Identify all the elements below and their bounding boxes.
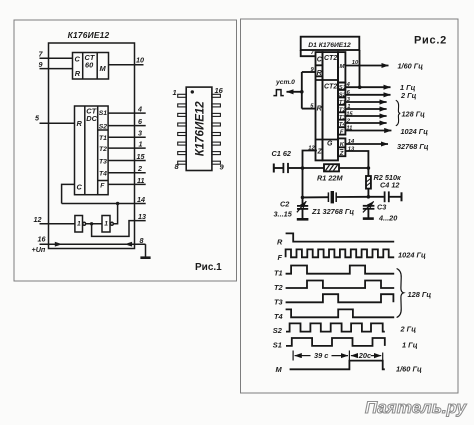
- node C1-R1 junction: [301, 166, 305, 170]
- svg-text:F: F: [278, 253, 283, 262]
- svg-text:R1 22М: R1 22М: [317, 174, 343, 183]
- pin 1 wire T2: [108, 147, 146, 149]
- ground of C3: [363, 217, 374, 220]
- svg-text:32768 Гц: 32768 Гц: [397, 142, 429, 151]
- svg-text:7: 7: [39, 50, 44, 59]
- waveform F 1024Hz: [286, 249, 395, 257]
- svg-text:9: 9: [220, 163, 225, 172]
- svg-text:6: 6: [138, 117, 143, 126]
- arrowhead pin 16: [55, 242, 63, 247]
- pin 10 wire: [109, 64, 144, 66]
- waveform T4: [286, 309, 395, 317]
- output T4: [345, 122, 386, 124]
- pin 1 index dot: [191, 90, 194, 93]
- outputs cell K Z: [338, 138, 345, 156]
- svg-text:1: 1: [77, 221, 81, 228]
- svg-text:G: G: [327, 141, 333, 148]
- svg-text:13: 13: [348, 147, 355, 153]
- svg-text:11: 11: [137, 176, 144, 185]
- waveform R: [286, 233, 395, 241]
- wire pin 12: [303, 151, 317, 198]
- svg-text:39 c: 39 c: [314, 351, 328, 360]
- svg-text:R: R: [77, 119, 83, 128]
- svg-text:10: 10: [352, 60, 359, 66]
- svg-text:T1: T1: [339, 100, 346, 106]
- svg-text:S2: S2: [339, 93, 347, 99]
- node crystal left junction: [301, 196, 305, 200]
- pin 16 and pin 8 supply wire: [40, 243, 146, 245]
- svg-text:S1: S1: [339, 85, 346, 91]
- resistor R1: [303, 167, 325, 169]
- pin 7 wire: [40, 57, 73, 59]
- svg-text:10: 10: [136, 56, 144, 65]
- svg-text:K: K: [340, 142, 345, 148]
- wire feedback S1 to box: [359, 50, 361, 87]
- svg-text:уст.0: уст.0: [275, 79, 295, 86]
- svg-text:1: 1: [173, 88, 177, 97]
- svg-text:Рис.2: Рис.2: [414, 35, 447, 47]
- counter CT60 block U1a: [73, 53, 109, 80]
- pin 14 wire: [62, 203, 146, 205]
- waveform T3: [286, 294, 394, 302]
- svg-text:1/60 Гц: 1/60 Гц: [398, 62, 424, 71]
- svg-text:Z: Z: [317, 149, 323, 156]
- svg-text:C3: C3: [377, 203, 386, 212]
- wire between inverters: [86, 223, 102, 225]
- svg-text:S2: S2: [99, 124, 108, 131]
- decade counter CT-DC block U1b: [75, 106, 109, 195]
- capacitor C4: [368, 196, 384, 198]
- crystal Z1: [327, 192, 329, 202]
- svg-text:T3: T3: [99, 158, 107, 165]
- ground: [140, 256, 150, 259]
- svg-text:Z: Z: [339, 151, 344, 157]
- svg-text:T4: T4: [339, 122, 347, 128]
- svg-text:C2: C2: [280, 200, 289, 209]
- wire pin 5: [302, 108, 316, 110]
- svg-text:20c: 20c: [358, 351, 371, 360]
- svg-text:+Uп: +Uп: [32, 245, 46, 254]
- svg-text:15: 15: [137, 152, 146, 161]
- pin 2 wire T4: [108, 172, 146, 174]
- svg-text:13: 13: [138, 212, 146, 221]
- svg-text:12: 12: [308, 145, 315, 151]
- svg-text:S1: S1: [273, 340, 282, 349]
- node R1-R2 junction: [367, 166, 371, 170]
- svg-text:М: М: [276, 365, 283, 374]
- overbar of Z: [340, 149, 344, 151]
- waveform T2: [286, 281, 395, 289]
- svg-text:3: 3: [138, 129, 142, 138]
- svg-text:К176ИЕ12: К176ИЕ12: [68, 30, 110, 40]
- svg-text:8: 8: [140, 236, 144, 245]
- svg-text:R: R: [277, 237, 283, 246]
- dimension arrow 39s: [295, 355, 311, 357]
- wire C input feedback: [62, 184, 75, 203]
- pin 4 wire S1: [108, 112, 146, 114]
- node ust0 junction: [300, 90, 304, 94]
- svg-text:14: 14: [348, 139, 355, 145]
- svg-text:Рис.1: Рис.1: [195, 262, 222, 273]
- svg-text:1 Гц: 1 Гц: [402, 340, 418, 349]
- svg-text:C: C: [75, 55, 81, 64]
- wire ust.0 arrow: [287, 91, 302, 93]
- dimension tick right: [382, 353, 384, 361]
- svg-text:T1: T1: [99, 135, 107, 142]
- svg-text:К176ИЕ12: К176ИЕ12: [195, 101, 207, 157]
- node S1 junction: [358, 85, 362, 89]
- svg-text:R: R: [317, 106, 322, 113]
- svg-text:R: R: [317, 70, 322, 77]
- svg-text:C: C: [77, 183, 83, 192]
- svg-text:11: 11: [346, 126, 352, 132]
- svg-text:CT2: CT2: [324, 84, 337, 91]
- waveform S1 1Hz: [286, 338, 385, 346]
- svg-text:2 Гц: 2 Гц: [400, 91, 417, 100]
- arrowhead pin 8: [125, 242, 133, 247]
- svg-text:Z1 32768 Гц: Z1 32768 Гц: [311, 207, 354, 216]
- svg-text:F: F: [340, 130, 344, 136]
- svg-text:128 Гц: 128 Гц: [402, 110, 426, 119]
- pin 5 wire: [40, 122, 75, 124]
- trimmer capacitor C2: [302, 197, 304, 205]
- svg-text:C4 12: C4 12: [380, 181, 399, 190]
- package left pins: [178, 94, 187, 164]
- node B junction: [90, 222, 93, 225]
- svg-text:Т1: Т1: [274, 269, 283, 278]
- frame of figure 2: [241, 19, 459, 393]
- section divider 2: [316, 139, 339, 141]
- node crystal right junction: [367, 195, 371, 199]
- output S2 2Hz: [345, 94, 390, 96]
- svg-text:Т2: Т2: [274, 283, 284, 292]
- dimension arrow 20s: [351, 355, 356, 357]
- pin 9 wire: [40, 68, 73, 70]
- capacitor C1: [273, 164, 275, 173]
- svg-text:1/60 Гц: 1/60 Гц: [396, 364, 422, 373]
- pulse symbol: [273, 90, 283, 96]
- svg-text:128 Гц: 128 Гц: [408, 290, 432, 299]
- output K 32768Hz: [345, 143, 388, 145]
- svg-text:T4: T4: [99, 171, 107, 178]
- wire pin 7 from box: [301, 50, 316, 56]
- svg-text:Т4: Т4: [274, 312, 283, 321]
- waveform M 1/60Hz: [290, 361, 385, 370]
- svg-text:1024 Гц: 1024 Гц: [398, 250, 426, 259]
- svg-text:8: 8: [175, 162, 180, 171]
- svg-text:2 Гц: 2 Гц: [400, 324, 417, 333]
- M output cell: [338, 52, 345, 82]
- svg-text:5: 5: [35, 114, 40, 123]
- svg-text:C1 62: C1 62: [272, 149, 291, 158]
- svg-text:4: 4: [137, 105, 142, 114]
- svg-text:3...15: 3...15: [274, 210, 293, 219]
- svg-text:16: 16: [38, 235, 47, 244]
- waveform T1: [286, 266, 395, 274]
- waveform S2 2Hz: [286, 323, 385, 331]
- IC middle column: [323, 52, 339, 160]
- svg-text:S2: S2: [273, 326, 283, 335]
- dimension tick mid: [348, 351, 350, 361]
- pin 6 wire S2: [108, 125, 146, 127]
- output T1: [345, 101, 386, 103]
- svg-text:60: 60: [85, 61, 94, 70]
- svg-text:1: 1: [104, 221, 108, 228]
- svg-text:1: 1: [347, 104, 350, 110]
- output F 1024Hz: [345, 130, 391, 132]
- resistor R2: [367, 168, 369, 176]
- wire ust.0 bus: [301, 72, 303, 109]
- output M 1/60Hz: [345, 65, 388, 67]
- inverter U1d: [102, 216, 110, 233]
- DIP-16 package body: [186, 87, 212, 170]
- svg-text:Т3: Т3: [274, 297, 284, 306]
- designator box D1: [301, 37, 360, 50]
- svg-text:S1: S1: [99, 110, 108, 117]
- svg-text:CT2: CT2: [324, 55, 337, 62]
- brace 128Hz outputs: [396, 100, 400, 126]
- svg-text:F: F: [100, 182, 105, 189]
- pin 15 wire T3: [108, 160, 146, 162]
- section divider 1: [316, 79, 339, 81]
- IC D1 outer boundary (fig.1): [49, 43, 135, 249]
- output S1 1Hz: [345, 86, 390, 88]
- trimmer capacitor C3: [363, 205, 375, 207]
- node A junction: [116, 202, 119, 205]
- svg-text:9: 9: [39, 60, 43, 69]
- svg-text:15: 15: [346, 111, 353, 117]
- pin 13 wire: [92, 221, 146, 237]
- svg-text:Паятель.ру: Паятель.ру: [365, 398, 468, 417]
- svg-text:14: 14: [137, 195, 145, 204]
- inverter U1c: [75, 216, 83, 233]
- wire pin 9: [302, 71, 316, 73]
- wire pin 13: [345, 151, 368, 168]
- svg-text:T2: T2: [99, 146, 107, 153]
- svg-text:DC: DC: [86, 114, 97, 123]
- dimension tick left: [292, 351, 294, 361]
- crystal Z1 wires: [303, 196, 329, 198]
- svg-text:16: 16: [215, 86, 224, 95]
- pin 12 wire: [40, 223, 75, 225]
- svg-text:12: 12: [34, 215, 42, 224]
- package right pins: [212, 94, 221, 164]
- output T3: [345, 115, 386, 117]
- svg-text:1024 Гц: 1024 Гц: [401, 127, 429, 136]
- svg-text:D1 К176ИЕ12: D1 К176ИЕ12: [308, 42, 351, 49]
- frame of figure 1: [14, 20, 237, 281]
- svg-text:M: M: [100, 64, 107, 73]
- wire inverter2 output to node: [113, 204, 117, 224]
- ground of C2: [297, 218, 309, 221]
- brace 128Hz timing: [397, 269, 404, 318]
- pin 11 wire F: [108, 183, 146, 185]
- outputs cell S1-F: [338, 83, 345, 135]
- svg-text:1: 1: [139, 140, 143, 149]
- output T2: [345, 108, 386, 110]
- svg-text:2: 2: [137, 164, 142, 173]
- svg-text:4...20: 4...20: [378, 214, 397, 223]
- IC left column: [316, 52, 323, 160]
- svg-text:R: R: [75, 69, 81, 78]
- pin 3 wire T1: [108, 136, 146, 138]
